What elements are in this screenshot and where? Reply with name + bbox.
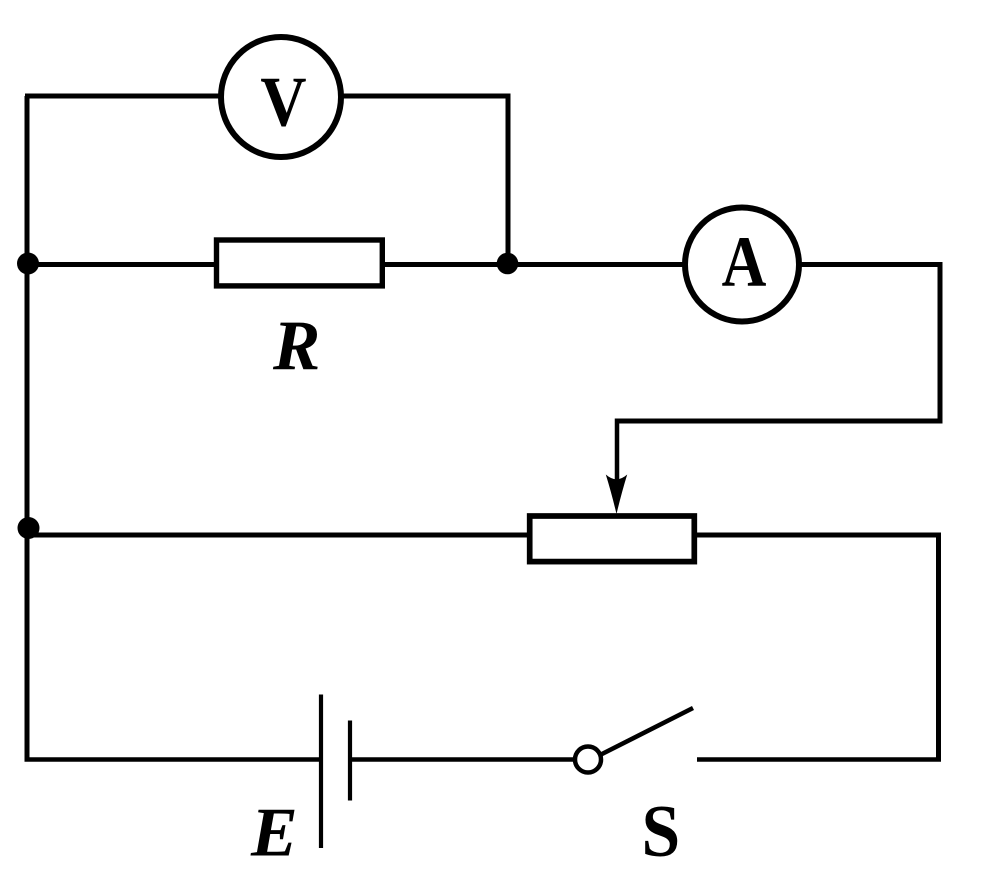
- svg-text:A: A: [722, 222, 767, 302]
- resistor R: [217, 240, 383, 286]
- wire horizontal (rheostat right): [697, 533, 939, 538]
- node C (junction dot left lower): [18, 517, 40, 539]
- battery long plate: [319, 695, 323, 849]
- svg-text:S: S: [642, 790, 681, 872]
- wire left vertical (top corner to bottom corner): [25, 96, 30, 760]
- wire wiper stem: [615, 419, 620, 496]
- battery short plate: [348, 721, 352, 801]
- voltmeter V: [221, 37, 341, 157]
- wire right vertical lower: [936, 533, 941, 761]
- svg-text:E: E: [250, 795, 298, 872]
- wire middle horizontal (resistor to ammeter): [385, 262, 684, 267]
- wire top horizontal left (to voltmeter): [25, 94, 222, 99]
- wire (battery to switch): [352, 757, 575, 762]
- switch S pivot circle: [575, 747, 601, 773]
- svg-text:R: R: [272, 307, 320, 385]
- wire right vertical (ammeter down): [938, 262, 943, 421]
- wire top horizontal right (voltmeter to corner): [340, 94, 508, 99]
- wire horizontal (to wiper): [617, 419, 943, 424]
- wire bottom left (to battery): [25, 757, 320, 762]
- rheostat (slide resistor): [530, 516, 695, 562]
- wire vertical (top corner down to node B): [506, 94, 511, 264]
- svg-text:V: V: [260, 62, 306, 141]
- wire horizontal (node C to rheostat): [27, 533, 527, 538]
- node B (junction dot right of resistor): [497, 253, 519, 275]
- switch S lever: [600, 708, 693, 755]
- node A (junction dot left upper): [17, 253, 39, 275]
- wire bottom right (to switch): [697, 757, 941, 762]
- wire from ammeter right: [799, 262, 940, 267]
- wiper arrowhead: [606, 475, 627, 515]
- ammeter A: [685, 208, 799, 322]
- wire middle horizontal (node A to resistor): [27, 262, 216, 267]
